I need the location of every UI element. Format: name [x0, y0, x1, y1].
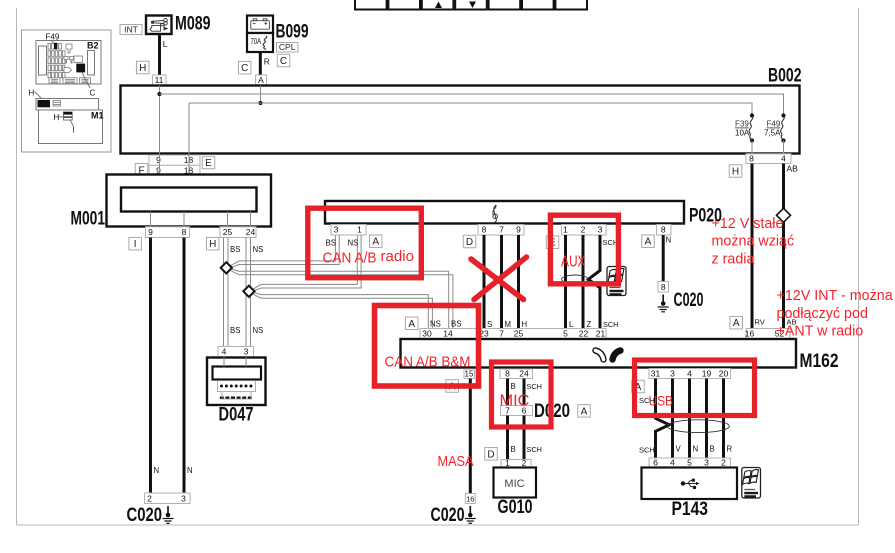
wire 18 into M001 [188, 154, 190, 188]
svg-text:INT: INT [124, 25, 138, 35]
radio P020 [325, 201, 684, 224]
svg-text:A: A [408, 319, 415, 330]
wire N radio pin8 to C020 [662, 235, 665, 282]
wire N M162 pin4 to P143 pin5 [688, 379, 691, 459]
svg-text:11: 11 [155, 75, 164, 85]
svg-text:70A: 70A [251, 37, 262, 46]
svg-text:A: A [645, 237, 652, 248]
wire L AUX pin1 to M162 pin5 [564, 235, 567, 329]
wire B099 to B002 pin A (R) [259, 52, 262, 76]
fuse 70A in B099 [247, 33, 273, 52]
wire B M162 pin19 to P143 pin3 [705, 379, 708, 459]
connector letter box A [642, 235, 655, 248]
connector letter box A [446, 380, 459, 393]
svg-text:4: 4 [670, 458, 675, 468]
svg-text:C020: C020 [127, 505, 163, 526]
pins 9 / 8 of M001 [146, 227, 190, 238]
svg-text:2: 2 [721, 458, 726, 468]
svg-text:N: N [187, 466, 193, 475]
svg-text:1: 1 [357, 225, 362, 235]
fuse F39 10A [750, 113, 754, 117]
svg-text:P143: P143 [672, 499, 709, 520]
svg-text:H: H [139, 63, 146, 74]
svg-text:M1: M1 [91, 111, 104, 121]
connector letter box A [369, 235, 382, 248]
B2 fuse rows [48, 44, 51, 50]
pin A (B002) [256, 75, 267, 86]
wire SCH AUX pin3 to M162 pin21 with shield tap [588, 235, 600, 329]
line from relay C to label [82, 73, 90, 89]
svg-text:BS: BS [230, 326, 240, 335]
ground C020 right [658, 295, 669, 312]
svg-text:3: 3 [704, 458, 709, 468]
B2 highlighted relay (C) [76, 64, 85, 73]
svg-text:+ANT w radio: +ANT w radio [777, 324, 864, 340]
svg-text:3: 3 [670, 369, 675, 379]
ground C020 left [163, 506, 174, 523]
connector letter box A [730, 316, 743, 329]
wire N M001 pin8 to C020 pin3 [183, 238, 186, 494]
svg-text:SCH: SCH [603, 320, 618, 329]
annotation red box CAN A/B B&M [375, 306, 479, 387]
svg-text:20: 20 [719, 369, 729, 379]
svg-text:7,5A: 7,5A [764, 129, 781, 138]
inset fusebox B2 [36, 41, 101, 85]
node junction pin11 feed [157, 92, 161, 96]
fan NS to radio pin 1 [253, 235, 358, 290]
svg-text:8: 8 [661, 282, 666, 292]
M162 top pin strip left [420, 329, 606, 339]
svg-text:A: A [258, 75, 264, 85]
wire R M162 pin20 to P143 pin2 [722, 379, 725, 459]
body computer M001 [107, 175, 272, 227]
svg-text:H: H [732, 167, 739, 178]
pin 11 (B002) [153, 75, 167, 86]
USB port P143 [642, 468, 738, 500]
wire SCH M162 pin24 to D020 [523, 379, 526, 406]
connector letter box C [238, 61, 251, 74]
M162 top pin strip right (16/52) [746, 329, 790, 339]
node junction battery feed [258, 101, 262, 105]
phone handset icons [596, 351, 621, 360]
Blue&Me unit M162 [401, 339, 797, 368]
svg-text:podłączyć pod: podłączyć pod [777, 306, 868, 322]
svg-text:L: L [569, 320, 574, 329]
annotation red box CAN A/B radio [308, 208, 422, 278]
svg-text:31: 31 [651, 369, 661, 379]
connector letter box A [578, 405, 591, 418]
svg-text:A: A [372, 237, 379, 248]
svg-text:NS: NS [253, 326, 264, 335]
connector letter box D [485, 448, 498, 461]
svg-text:B: B [511, 445, 516, 454]
svg-text:3: 3 [598, 225, 603, 235]
svg-text:9: 9 [156, 155, 161, 165]
svg-text:C: C [280, 56, 287, 67]
connector letter box H [206, 237, 219, 250]
wire Z AUX pin2 to M162 pin22 [582, 235, 585, 329]
svg-text:+12 V stałe: +12 V stałe [712, 216, 784, 232]
svg-text:8: 8 [661, 225, 666, 235]
toolbar up-arrow glyph [435, 2, 442, 9]
svg-text:25: 25 [223, 227, 233, 237]
D047 pin field dots [220, 385, 252, 388]
wire V M162 pin3 to P143 pin4 [671, 379, 674, 459]
pins 25 / 24 of M001 [220, 227, 256, 238]
annotation red box USB [635, 360, 755, 416]
svg-text:G010: G010 [498, 497, 533, 518]
wire pin11 through B002 to pin 9 [159, 86, 161, 154]
svg-text:SCH: SCH [527, 382, 542, 391]
svg-text:M: M [505, 320, 512, 329]
svg-text:7: 7 [499, 225, 504, 235]
wire AB pin4 B002 to pin52 M162 [782, 164, 785, 329]
wire pin A down to junction [260, 86, 262, 104]
M1 striped component [64, 112, 73, 120]
wire M radio pin7 to M162 pin7 [500, 235, 503, 329]
pin 15 of M162 [464, 369, 475, 379]
svg-text:USB: USB [649, 393, 674, 409]
svg-text:SCH: SCH [527, 445, 542, 454]
svg-text:M162: M162 [800, 351, 839, 372]
pins 31/3/4/19/20 of M162 (USB) [649, 369, 731, 379]
connector letter box E [202, 156, 215, 169]
svg-text:R: R [727, 445, 733, 454]
shield ellipse AUX cable [562, 275, 588, 284]
svg-text:BS: BS [326, 239, 336, 248]
page frame bottom border [17, 524, 859, 526]
wire B M162 pin8 to D020 [506, 379, 509, 406]
M1 main box [39, 110, 103, 144]
svg-text:30: 30 [422, 329, 432, 339]
annotation red box MIC [492, 362, 552, 427]
svg-text:I: I [73, 126, 75, 135]
svg-text:CAN A/B: CAN A/B [323, 250, 377, 267]
wire M089 to B002 pin 11 (L) [158, 34, 161, 76]
fan BS to M162 pin 14 [230, 269, 449, 329]
pins 6/4/5/3/2 of P143 [649, 458, 731, 468]
svg-text:C020: C020 [431, 505, 465, 526]
B2 left connector rect [39, 46, 47, 75]
svg-text:CAN A/B B&M: CAN A/B B&M [385, 354, 471, 371]
connector letter box F [135, 164, 148, 177]
svg-text:21: 21 [596, 329, 606, 339]
pin 8 (radio ground) [657, 225, 672, 236]
inset overview box [22, 30, 112, 152]
label box CPL [277, 42, 299, 52]
annotation red X over audio wires [471, 257, 527, 300]
svg-text:8: 8 [182, 227, 187, 237]
pin 16 of C020 mid [465, 494, 475, 504]
M089 key icon [150, 19, 167, 32]
inline connector D020 pins 7/6 [501, 406, 533, 416]
svg-text:9: 9 [516, 225, 521, 235]
svg-text:3: 3 [244, 347, 249, 357]
svg-text:24: 24 [246, 227, 256, 237]
wire junction to fuse F49 [160, 94, 784, 115]
svg-text:B2: B2 [87, 41, 99, 51]
pins 1 / 2 of G010 [501, 460, 531, 468]
svg-text:9: 9 [148, 227, 153, 237]
diagnostic connector D047 [207, 358, 266, 406]
svg-text:D047: D047 [219, 405, 254, 426]
wire H radio pin9 to M162 pin25 [517, 235, 520, 329]
USB trident icon [681, 479, 700, 489]
ground C020 mid [465, 506, 476, 523]
battery B099 [247, 16, 273, 34]
svg-text:14: 14 [443, 329, 453, 339]
CAN BS pair M001 pin25 to D047 pin4 [223, 238, 225, 347]
svg-text:F49: F49 [767, 120, 781, 129]
page frame left border [16, 8, 18, 525]
ignition switch M089 [146, 16, 172, 35]
fan BS to radio pins 3 [230, 235, 335, 266]
svg-text:N: N [693, 445, 699, 454]
svg-text:A: A [581, 406, 588, 417]
svg-text:4: 4 [687, 369, 692, 379]
connector letter box E [546, 236, 559, 249]
connector letter box I [129, 237, 142, 250]
D047 pin field dashes [220, 397, 252, 400]
svg-text:+12V INT - można: +12V INT - można [777, 288, 893, 304]
splice diamond on AB wire [777, 208, 791, 222]
pin 8 of C020 right [658, 282, 669, 293]
B2 highlighted fuse (F49) [54, 43, 57, 49]
svg-text:1: 1 [563, 225, 568, 235]
svg-text:2: 2 [581, 225, 586, 235]
svg-text:B002: B002 [768, 66, 802, 87]
svg-text:A: A [733, 318, 740, 329]
connector letter box A [405, 317, 418, 330]
svg-text:AUX: AUX [561, 254, 586, 271]
svg-text:22: 22 [579, 329, 589, 339]
svg-text:można wziąć: można wziąć [712, 234, 795, 250]
svg-text:H: H [209, 239, 216, 250]
M1 top strip [36, 99, 99, 111]
svg-text:8: 8 [749, 154, 754, 164]
svg-text:C020: C020 [674, 290, 704, 311]
wire N M162 pin15 ground [469, 379, 472, 494]
pins 8 / 24 of M162 (mic out) [500, 369, 533, 379]
svg-text:25: 25 [514, 329, 524, 339]
svg-text:C: C [90, 89, 96, 98]
svg-text:4: 4 [222, 347, 227, 357]
svg-text:NS: NS [348, 239, 359, 248]
CAN NS pair M001 pin24 to D047 pin3 [245, 238, 247, 347]
splice diamond BS [221, 262, 232, 273]
wire S radio pin8 to M162 pin23 [483, 235, 486, 329]
fan NS to M162 pin 30 [253, 292, 429, 328]
svg-text:BS: BS [451, 320, 461, 329]
Windows Mobile badge (P143) [742, 468, 761, 499]
page frame right border [858, 8, 860, 525]
connector letter box D [463, 235, 476, 248]
B2 misc relay shapes [66, 44, 72, 53]
svg-text:M089: M089 [175, 14, 211, 35]
wire F49 to pin 4 [783, 141, 785, 154]
splice diamond NS [243, 286, 254, 297]
wire SCH M162 pin31 to P143 pin6 with shield tap [656, 379, 670, 459]
svg-text:3: 3 [181, 494, 186, 504]
svg-text:B099: B099 [276, 22, 309, 43]
svg-text:15: 15 [465, 370, 474, 379]
wire RV pin8 B002 to pin16 M162 [751, 164, 754, 329]
svg-text:6: 6 [653, 458, 658, 468]
svg-text:radio: radio [381, 248, 415, 265]
svg-text:24: 24 [519, 369, 529, 379]
connector letter box A [632, 380, 645, 393]
wire N M001 pin9 to C020 pin2 [149, 238, 152, 494]
wire B D020 to G010 [506, 416, 509, 460]
microphone G010 [494, 468, 537, 498]
svg-text:V: V [676, 445, 682, 454]
svg-text:N: N [666, 236, 672, 245]
svg-text:BS: BS [230, 245, 240, 254]
shield ellipse USB cable [667, 420, 729, 433]
svg-text:7: 7 [499, 329, 504, 339]
svg-text:16: 16 [466, 495, 474, 504]
svg-text:B: B [511, 382, 516, 391]
svg-text:CPL: CPL [279, 42, 296, 52]
svg-text:MIC: MIC [504, 478, 524, 490]
svg-text:8: 8 [505, 369, 510, 379]
Windows Mobile badge (AUX) [607, 267, 626, 296]
B2 bottom connector stubs [49, 78, 60, 84]
svg-text:RV: RV [755, 318, 765, 327]
svg-text:3: 3 [334, 225, 339, 235]
pin rows 9/18 below B002 [149, 155, 200, 165]
svg-text:N: N [154, 466, 160, 475]
treble clef icon [493, 205, 497, 222]
connector letter box C [277, 54, 290, 67]
svg-text:L: L [163, 39, 168, 49]
svg-text:B: B [710, 445, 715, 454]
svg-text:2: 2 [147, 494, 152, 504]
pins 4 / 3 of D047 [218, 347, 254, 358]
battery icon [251, 19, 270, 29]
svg-text:C: C [241, 63, 248, 74]
svg-text:E: E [205, 158, 212, 169]
wire 9 into M001 [159, 154, 161, 188]
M001 inner block [121, 188, 257, 212]
svg-text:SCH: SCH [639, 446, 655, 455]
fuse F49 7,5A [781, 113, 785, 117]
svg-text:8: 8 [482, 225, 487, 235]
pins 3 / 1 (radio CAN) [331, 225, 366, 236]
svg-text:NS: NS [253, 245, 264, 254]
label box INT [120, 25, 142, 35]
junction unit B002 [121, 86, 800, 154]
connector letter box H [136, 61, 149, 74]
svg-text:16: 16 [745, 329, 755, 339]
svg-text:F39: F39 [735, 120, 749, 129]
svg-text:F49: F49 [46, 33, 60, 42]
svg-text:MASA: MASA [438, 453, 474, 470]
svg-text:D: D [487, 449, 494, 460]
svg-text:M001: M001 [71, 209, 106, 230]
svg-text:5: 5 [563, 329, 568, 339]
wire F39 to pin 8 [751, 141, 753, 154]
svg-text:R: R [264, 57, 270, 67]
svg-text:z radia: z radia [712, 251, 755, 267]
svg-text:4: 4 [781, 154, 786, 164]
B2 right connector rect [88, 51, 95, 76]
svg-text:NS: NS [430, 320, 441, 329]
wire junction to fuse F39 and to pin 18 [189, 103, 752, 115]
svg-text:10A: 10A [735, 129, 750, 138]
pins 1 / 2 / 3 (AUX) [562, 225, 607, 236]
annotation red box AUX [550, 215, 618, 284]
wire SCH D020 to G010 [523, 416, 526, 460]
connector letter box H [729, 165, 742, 178]
connector C020 (left) pins 2/3 [145, 493, 191, 504]
pins 8 / 7 / 9 (radio audio) [478, 225, 524, 236]
svg-text:D: D [466, 237, 473, 248]
wire junction down to pin 18 [188, 103, 190, 154]
svg-text:MIC: MIC [500, 393, 530, 410]
toolbar buttons (cut off) [355, 0, 387, 10]
svg-text:I: I [134, 239, 137, 250]
toolbar down-arrow glyph [469, 2, 476, 9]
pins 8 / 4 of B002 [746, 154, 791, 164]
svg-text:5: 5 [687, 458, 692, 468]
svg-text:H: H [29, 89, 35, 98]
svg-text:AB: AB [787, 164, 799, 174]
svg-text:19: 19 [702, 369, 712, 379]
